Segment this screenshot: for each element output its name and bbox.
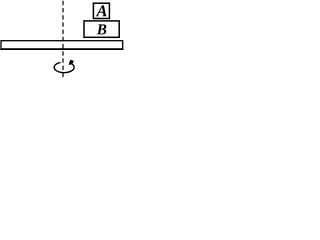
label A xyxy=(96,5,107,16)
platform (rotating table) xyxy=(1,41,123,49)
platform bottom edge (thicker) xyxy=(0,48,123,50)
block A xyxy=(93,3,109,18)
rotation arrow arc xyxy=(54,62,74,72)
block B xyxy=(84,21,119,37)
rotation arrowhead xyxy=(69,60,75,65)
label B xyxy=(97,24,107,34)
wire: dashed rotation axis xyxy=(62,1,64,79)
